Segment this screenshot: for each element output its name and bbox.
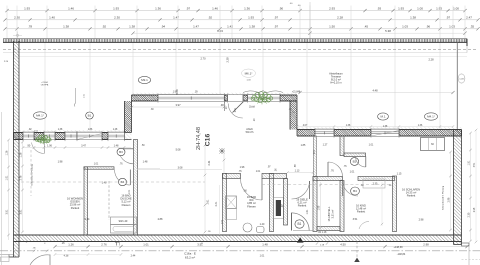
svg-text:Parkett: Parkett — [407, 194, 416, 198]
plant symbol left — [36, 135, 52, 144]
label ellipse M1 — [378, 113, 389, 120]
svg-text:1.01: 1.01 — [115, 242, 120, 244]
axis vertical x310 — [309, 2, 311, 39]
roof edge thin line — [3, 52, 467, 54]
left outer wall — [0, 41, 19, 257]
dimension row 1 (top) — [5, 6, 466, 12]
svg-text:50m³/h: 50m³/h — [246, 131, 254, 134]
svg-text:M4.1°: M4.1° — [36, 114, 45, 118]
svg-text:2H-74,48: 2H-74,48 — [196, 127, 202, 150]
stairs block bottom right — [462, 245, 480, 265]
svg-text:1.86: 1.86 — [88, 129, 93, 131]
brace over window W6 — [243, 91, 283, 93]
svg-text:B1: B1 — [298, 222, 302, 226]
right edge rotated dims — [474, 162, 476, 212]
label circle B1 left band — [86, 112, 94, 119]
right band wall underlay — [297, 127, 462, 136]
svg-text:16 ABSTELL: 16 ABSTELL — [327, 206, 331, 221]
right band wall piers — [297, 130, 462, 137]
label circle B1 entrance — [295, 220, 304, 228]
extra bottom-left marks — [32, 248, 48, 253]
svg-text:3.51: 3.51 — [20, 209, 23, 214]
roof overhang dashed line — [3, 49, 478, 51]
svg-text:Fliesen: Fliesen — [247, 204, 256, 208]
svg-text:5.38: 5.38 — [385, 29, 391, 33]
svg-text:1.01: 1.01 — [94, 164, 99, 166]
svg-text:1.38: 1.38 — [383, 126, 388, 128]
svg-text:1.93: 1.93 — [398, 6, 404, 10]
window W1 left band — [23, 132, 34, 140]
door storage arc — [356, 157, 366, 168]
vertical dim line left interior — [20, 141, 24, 234]
axis marker top-left — [13, 32, 22, 39]
svg-text:1.48: 1.48 — [143, 161, 148, 164]
svg-text:.93: .93 — [377, 6, 382, 10]
svg-text:H=2,10 m: H=2,10 m — [330, 81, 341, 85]
window W7 right band — [315, 129, 334, 136]
dashed beam line living — [21, 181, 205, 183]
upper band boundary ticks — [158, 93, 280, 102]
entrance arrow — [297, 237, 304, 242]
bath1 wall west vertical — [84, 167, 88, 235]
interior wall bath/hall vertical x269.5 — [270, 174, 274, 232]
door B2 arc (room 1 top) — [328, 162, 343, 177]
svg-text:2.01: 2.01 — [235, 107, 237, 112]
interior wall narrow room bottom — [317, 227, 340, 231]
svg-text:Fliesen: Fliesen — [122, 203, 131, 207]
terrace level note — [41, 82, 49, 87]
window W4b left band — [108, 132, 125, 140]
vertical dim middle room — [381, 182, 383, 226]
washbasin bath2 — [243, 223, 252, 232]
dimension row 3 — [3, 25, 479, 31]
terrace canopy line — [14, 55, 467, 57]
svg-text:1.85: 1.85 — [301, 144, 306, 147]
svg-text:2.28: 2.28 — [337, 16, 343, 20]
terrace door D1 opening — [225, 95, 244, 118]
interior wall kitchen/bath vertical x222.5 — [223, 174, 227, 232]
svg-text:1.06: 1.06 — [47, 144, 52, 147]
entrance threshold line — [293, 230, 313, 232]
bottom misc marks left — [61, 242, 120, 245]
svg-text:2.98: 2.98 — [448, 197, 451, 202]
svg-text:1.98: 1.98 — [58, 161, 63, 164]
svg-text:1.93: 1.93 — [436, 6, 442, 10]
door B3 arc (bath east wall) — [119, 149, 134, 164]
svg-text:1.00: 1.00 — [417, 6, 423, 10]
window W8 right band — [371, 129, 399, 136]
svg-text:3.51: 3.51 — [6, 209, 9, 214]
interior wall rooms top horizontal b — [358, 177, 395, 181]
svg-text:2.28: 2.28 — [226, 57, 230, 63]
dim line above right band — [296, 125, 454, 127]
svg-text:.97: .97 — [274, 16, 279, 20]
interior dims rooms right — [243, 168, 424, 235]
vertical dim line left outside x8.5 — [6, 139, 10, 240]
svg-text:OK FFB: OK FFB — [41, 85, 49, 87]
right outer edge line — [466, 39, 468, 53]
svg-text:3.51: 3.51 — [474, 162, 476, 167]
svg-text:.90: .90 — [27, 144, 31, 147]
ticks below band markers — [117, 242, 329, 247]
svg-text:1.01: 1.01 — [369, 144, 374, 147]
dimension row 2 — [3, 16, 479, 22]
window W2 left band — [44, 132, 55, 140]
svg-text:1.38: 1.38 — [58, 129, 63, 131]
closet right bedroom — [421, 138, 445, 151]
vertical dim line bedroom x450.5 — [448, 151, 452, 232]
dimension extension verticals — [7, 6, 465, 134]
svg-text:B1: B1 — [88, 114, 92, 118]
label M4.1 right — [425, 113, 438, 120]
label circle B3 bath door — [117, 148, 125, 155]
svg-text:.97: .97 — [274, 25, 279, 29]
svg-text:M6.1°: M6.1° — [245, 71, 254, 75]
right step connector wall — [290, 101, 297, 130]
axis dash-dot line bottom — [0, 250, 480, 252]
label circle B4 room2 door — [351, 187, 360, 195]
door hall north arc — [292, 181, 310, 199]
interior wall rooms vertical x392.5 — [393, 176, 397, 232]
svg-text:+148,39: +148,39 — [393, 246, 403, 249]
svg-text:.90: .90 — [220, 103, 224, 107]
svg-text:1.01: 1.01 — [350, 171, 355, 174]
svg-text:1.47: 1.47 — [193, 25, 199, 29]
svg-text:1.93: 1.93 — [248, 16, 254, 20]
interior dims misc living — [58, 149, 211, 221]
svg-text:1.47: 1.47 — [173, 16, 179, 20]
svg-text:1.03: 1.03 — [402, 25, 408, 29]
svg-text:1.97: 1.97 — [173, 92, 178, 94]
label C16 unit rotated — [196, 127, 254, 174]
interior wall bath top horizontal — [223, 174, 241, 179]
upper band wall underlay — [132, 93, 298, 101]
room label room rotated — [327, 206, 334, 221]
bottom label C16a — [184, 252, 196, 260]
svg-text:2.28: 2.28 — [428, 58, 434, 62]
door B4a arc (bath1 top) — [115, 170, 131, 186]
plant symbol upper — [251, 92, 272, 105]
svg-text:1.46: 1.46 — [212, 6, 218, 10]
svg-text:.96: .96 — [426, 25, 431, 29]
svg-text:1.01: 1.01 — [143, 242, 149, 246]
svg-text:.78: .78 — [28, 25, 33, 29]
svg-text:Schrankwand lt. Planung: Schrankwand lt. Planung — [442, 185, 445, 210]
left page edge line — [1, 112, 3, 265]
svg-text:2.41: 2.41 — [215, 201, 218, 206]
bath1 wall top horizontal — [84, 167, 114, 169]
svg-text:2.93: 2.93 — [329, 6, 335, 10]
svg-text:2.44: 2.44 — [131, 255, 136, 258]
svg-text:Parkett: Parkett — [357, 210, 365, 214]
svg-text:Parkett: Parkett — [71, 206, 80, 210]
closet middle room — [363, 179, 385, 188]
window W3 left band — [65, 132, 77, 140]
svg-text:1.13: 1.13 — [295, 169, 300, 172]
interior wall narrow room east x340 — [340, 181, 344, 232]
left step connector wall — [125, 101, 132, 133]
svg-text:1.01: 1.01 — [260, 255, 265, 258]
svg-text:.97: .97 — [446, 16, 451, 20]
downpipe symbol — [74, 88, 75, 107]
room label living room — [67, 197, 83, 210]
svg-text:2.88: 2.88 — [158, 218, 163, 221]
svg-text:4.50: 4.50 — [340, 242, 346, 246]
dashed vertical below band — [356, 242, 358, 260]
scattered dims terrace — [131, 57, 434, 109]
svg-text:1.38: 1.38 — [410, 16, 416, 20]
living dim 3.08 — [137, 169, 222, 171]
vertical dim line right outside x476 — [475, 129, 478, 244]
svg-text:B4: B4 — [353, 189, 357, 193]
svg-text:-148,84: -148,84 — [397, 253, 406, 256]
svg-text:1.38: 1.38 — [346, 125, 351, 127]
small arc middle room bottom — [359, 221, 369, 229]
svg-text:Zuluft: Zuluft — [249, 106, 255, 109]
WC bath2 — [257, 227, 265, 233]
window W5 upper band — [158, 94, 224, 101]
vertical dim line right outside x470.5 — [468, 132, 472, 243]
svg-text:2.98: 2.98 — [419, 218, 424, 221]
svg-text:M9.1: M9.1 — [141, 78, 148, 82]
svg-text:90/1.40: 90/1.40 — [119, 219, 128, 223]
interior wall hall top horizontal — [262, 174, 287, 179]
svg-text:1.42: 1.42 — [227, 25, 233, 29]
cabinet bath2 — [226, 209, 237, 220]
left band wall underlay — [14, 130, 132, 139]
svg-text:3.97: 3.97 — [175, 103, 181, 107]
svg-text:3.08: 3.08 — [178, 166, 183, 169]
svg-text:1.01: 1.01 — [6, 175, 9, 180]
svg-text:1.48: 1.48 — [114, 144, 119, 147]
interior dim row living y147.5 — [22, 144, 131, 149]
vertical dim hall x320.5 — [319, 182, 322, 230]
triangle mark bottom x357 — [354, 258, 360, 262]
svg-text:4.07: 4.07 — [303, 125, 308, 127]
svg-text:1.01: 1.01 — [129, 189, 131, 194]
svg-text:1.15: 1.15 — [397, 173, 402, 176]
bottom outer wall — [14, 235, 462, 242]
svg-text:1.46: 1.46 — [68, 6, 74, 10]
right terrace edge line — [456, 42, 458, 129]
svg-text:2.98: 2.98 — [474, 207, 476, 212]
svg-text:.92: .92 — [208, 16, 213, 20]
svg-text:2.44: 2.44 — [85, 218, 90, 221]
svg-text:5.08: 5.08 — [176, 149, 181, 152]
svg-text:B3: B3 — [119, 150, 123, 154]
more speckle dims near doors — [28, 92, 423, 195]
svg-text:1.36: 1.36 — [155, 6, 161, 10]
left band wall piers — [14, 133, 109, 140]
storage wall horizontal y153 — [344, 153, 366, 157]
svg-text:1.36: 1.36 — [418, 125, 423, 127]
window W6 upper band — [248, 94, 281, 101]
svg-text:2.30: 2.30 — [114, 16, 120, 20]
vertical dim line kitchen x205 — [204, 144, 207, 234]
door swing bottom-left outside — [1, 255, 51, 265]
note abstellraum top right — [329, 72, 343, 85]
svg-text:1.40: 1.40 — [49, 16, 55, 20]
left band boundary ticks — [23, 131, 125, 141]
svg-text:1.01: 1.01 — [256, 171, 261, 173]
svg-text:1.48: 1.48 — [113, 129, 118, 131]
top railing band — [3, 39, 467, 43]
tub bath1 — [111, 225, 137, 234]
interior wall rooms top horizontal a — [313, 177, 343, 181]
svg-text:3.47: 3.47 — [81, 144, 86, 147]
svg-text:.94: .94 — [161, 25, 166, 29]
right outer wall — [454, 130, 470, 247]
door B4 arc (room 2 top) — [343, 181, 358, 196]
corridor wall x313 upper part — [313, 136, 316, 177]
svg-text:1.26: 1.26 — [68, 242, 74, 246]
bottom right level marks — [393, 246, 405, 256]
room label bath 1 — [120, 194, 132, 207]
svg-text:2.41: 2.41 — [208, 160, 211, 165]
svg-text:2.76: 2.76 — [101, 242, 107, 246]
label ellipse right edge — [458, 74, 465, 83]
entrance door B1 arc — [292, 213, 310, 231]
svg-text:1.38: 1.38 — [63, 25, 69, 29]
storage wall x340 upper — [340, 136, 344, 156]
shower bath1 — [111, 217, 137, 225]
room label middle room — [356, 204, 366, 214]
svg-text:.92: .92 — [102, 25, 107, 29]
duct shaft dark fill — [274, 198, 284, 219]
right band boundary ticks — [315, 128, 399, 138]
terrace door swing arc left — [32, 141, 45, 154]
svg-text:1.93: 1.93 — [24, 6, 30, 10]
window W4 left band (terrace door) — [77, 132, 102, 140]
svg-text:2.61: 2.61 — [207, 199, 210, 204]
interior wall hall/room vertical x313 — [313, 177, 317, 232]
svg-text:.90: .90 — [279, 6, 284, 10]
svg-text:M.1: M.1 — [380, 115, 385, 119]
svg-text:1.51: 1.51 — [468, 160, 471, 165]
svg-text:.35: .35 — [470, 25, 475, 29]
svg-text:63,2 m²: 63,2 m² — [185, 255, 195, 259]
svg-text:1.36: 1.36 — [244, 6, 250, 10]
svg-text:1.00: 1.00 — [453, 6, 459, 10]
svg-text:1.48: 1.48 — [262, 242, 268, 246]
room label hall — [296, 198, 308, 208]
label M4.1 left — [34, 112, 47, 119]
svg-text:4.38: 4.38 — [64, 255, 69, 258]
shower screen dashed — [108, 181, 110, 220]
svg-text:2.35: 2.35 — [468, 212, 471, 217]
shower bath2 — [226, 196, 237, 209]
bottom dim row — [53, 242, 468, 248]
svg-text:M4.1°: M4.1° — [427, 115, 436, 119]
bath1 wall east vertical x133.5 — [134, 140, 161, 236]
svg-text:3,21 m²: 3,21 m² — [330, 209, 334, 218]
svg-text:.45: .45 — [364, 25, 369, 29]
dim line right terrace — [298, 88, 454, 94]
svg-text:.76: .76 — [330, 170, 334, 173]
svg-text:1.50: 1.50 — [329, 25, 335, 29]
svg-text:1.03: 1.03 — [449, 25, 455, 29]
svg-text:1.26: 1.26 — [20, 152, 23, 157]
svg-text:.84 1.18: .84 1.18 — [318, 231, 327, 234]
svg-text:2.35: 2.35 — [373, 183, 378, 186]
svg-text:1.27: 1.27 — [323, 144, 328, 147]
kitchen area dim marks — [207, 185, 223, 235]
corridor dims — [301, 144, 374, 155]
svg-text:.97: .97 — [186, 6, 191, 10]
svg-text:Parkett: Parkett — [298, 204, 307, 208]
svg-text:1.93: 1.93 — [113, 6, 119, 10]
room label bedroom right — [402, 188, 420, 198]
svg-text:1.38: 1.38 — [249, 25, 255, 29]
svg-text:2.70: 2.70 — [200, 57, 206, 61]
svg-text:1.98: 1.98 — [240, 166, 245, 169]
svg-text:2.01: 2.01 — [314, 149, 316, 154]
label M6.1 — [242, 69, 256, 82]
svg-text:1.40: 1.40 — [260, 223, 265, 226]
bottom extra row texts — [54, 253, 265, 257]
svg-text:1.38: 1.38 — [129, 25, 135, 29]
svg-text:1.26: 1.26 — [6, 150, 9, 155]
label circle B2 room1 door — [350, 158, 358, 166]
svg-text:3.51: 3.51 — [353, 218, 358, 221]
svg-text:1.01: 1.01 — [306, 209, 309, 214]
svg-text:2.98: 2.98 — [423, 242, 429, 246]
svg-text:1.88: 1.88 — [319, 205, 321, 210]
dimension row 4 (partial) — [131, 29, 466, 35]
label circle B4 bath1 — [119, 178, 127, 185]
label ellipse M9.1 — [138, 76, 150, 83]
room label bath 2 — [247, 195, 256, 208]
door bath2 arc — [240, 166, 272, 200]
svg-text:2.76: 2.76 — [20, 175, 23, 180]
upper band wall piers — [132, 95, 298, 101]
svg-text:2.47: 2.47 — [466, 16, 472, 20]
svg-text:4.48: 4.48 — [372, 88, 378, 92]
interior wall hall west vertical x289.5 — [284, 179, 288, 226]
